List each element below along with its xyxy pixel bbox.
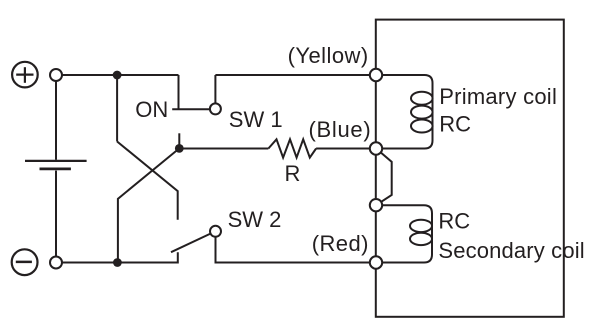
battery plus terminal symbol — [12, 62, 38, 88]
wire: crossover diagonal B from Blue junction to bottom rail — [118, 148, 179, 262]
svg-text:(Yellow): (Yellow) — [288, 43, 369, 68]
wire: bottom rail from SW2 pivot to Red node — [216, 236, 377, 262]
switch SW2 pivot circle — [210, 226, 221, 237]
svg-text:ON: ON — [135, 97, 168, 122]
primary coil RC winding connection — [376, 75, 433, 149]
svg-text:(Red): (Red) — [312, 231, 369, 256]
wire: battery vertical top — [55, 81, 57, 160]
battery cell B1 long plate — [25, 160, 87, 162]
junction dot: bottom rail — [113, 258, 122, 267]
node (Blue) — [370, 142, 382, 154]
secondary coil RC winding connection — [376, 205, 432, 262]
secondary coil loops — [410, 220, 432, 245]
junction dot: top rail — [113, 71, 122, 80]
transformer box outline — [376, 20, 564, 317]
switch SW1 blade — [172, 108, 210, 110]
terminal circle: battery + — [50, 69, 62, 81]
node (Red) — [370, 256, 382, 268]
wire: bottom rail from - terminal to SW2 contact — [62, 252, 178, 262]
wire: bulge link between Blue node and tap node — [376, 149, 392, 206]
svg-text:RC: RC — [438, 209, 470, 234]
wire: crossover left vertical from top junction — [116, 75, 118, 142]
svg-text:R: R — [285, 161, 301, 186]
primary coil loops — [411, 92, 433, 133]
svg-text:RC: RC — [439, 112, 471, 137]
wire: crossover diagonal A to SW2 upper contact — [117, 142, 178, 220]
svg-text:SW 1: SW 1 — [229, 107, 283, 132]
svg-text:Secondary coil: Secondary coil — [438, 238, 584, 263]
wire: Blue wire from junction to resistor — [179, 148, 268, 150]
wire: battery vertical bottom — [55, 171, 57, 257]
battery cell B1 short plate — [40, 167, 71, 170]
junction dot: Blue wire — [175, 144, 184, 153]
wire: top rail from SW1 to Yellow node — [215, 74, 376, 76]
switch SW2 blade — [171, 233, 211, 252]
node tap — [370, 199, 382, 211]
switch SW1 feed drop — [178, 75, 180, 109]
resistor R — [268, 139, 316, 157]
wire: stub above Blue junction — [178, 133, 180, 148]
wire: top rail from + terminal to SW1 — [62, 74, 179, 76]
svg-text:(Blue): (Blue) — [309, 117, 372, 142]
svg-text:Primary coil: Primary coil — [439, 84, 557, 109]
terminal circle: battery - — [50, 257, 62, 269]
wire: Blue wire from resistor to Blue node — [316, 148, 376, 150]
switch SW1 pivot circle — [210, 103, 221, 114]
switch SW1 pivot riser — [214, 75, 216, 104]
node (Yellow) — [370, 69, 382, 81]
battery minus terminal symbol — [12, 249, 38, 275]
svg-text:SW 2: SW 2 — [228, 207, 282, 232]
